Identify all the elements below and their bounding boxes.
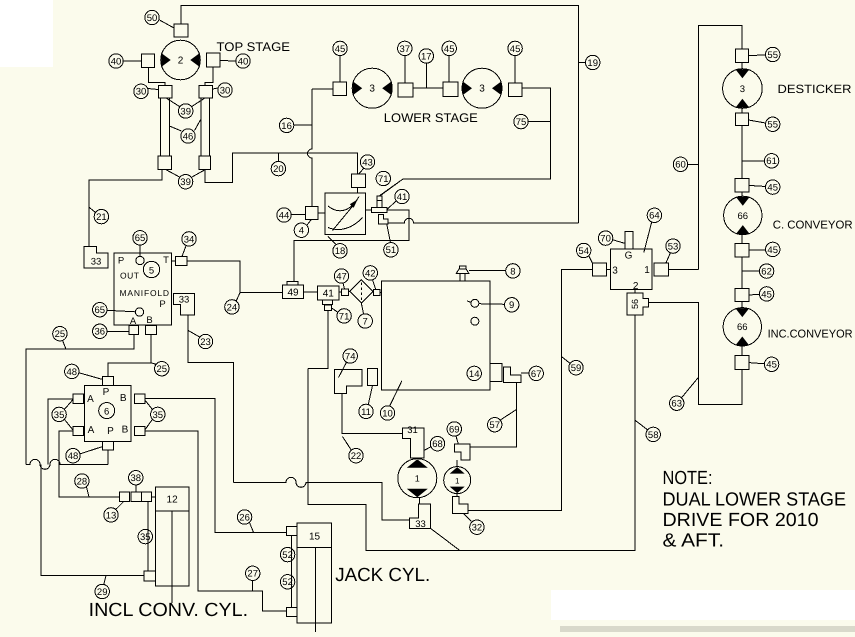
svg-text:39: 39	[180, 177, 191, 188]
leader 18	[328, 237, 336, 245]
port square 45 c-conveyor top	[735, 179, 749, 193]
callout 45 lower-stage first	[333, 41, 347, 55]
port square 45-1	[333, 82, 347, 95]
leader 59	[561, 357, 570, 364]
svg-text:& AFT.: & AFT.	[663, 531, 725, 552]
svg-text:DUAL LOWER STAGE: DUAL LOWER STAGE	[663, 490, 847, 511]
svg-text:3: 3	[479, 84, 485, 95]
manifold label B	[146, 315, 152, 326]
svg-text:49: 49	[287, 288, 299, 299]
wire c-conv to inc-conv	[741, 257, 743, 288]
wire valve6 bottom port to hose	[107, 450, 109, 464]
port square left-bottom valve 6	[73, 426, 84, 435]
svg-text:20: 20	[273, 164, 284, 175]
wire to inc-conveyor	[741, 302, 743, 308]
valve3 label 1	[644, 265, 650, 276]
tube square upper-right	[199, 85, 213, 97]
wire pump2 to bottom fitting	[456, 494, 458, 497]
svg-text:34: 34	[184, 234, 195, 245]
callout 17	[419, 49, 433, 63]
svg-text:LOWER STAGE: LOWER STAGE	[384, 111, 478, 125]
flag 33 right of manifold	[173, 293, 194, 315]
svg-text:55: 55	[767, 120, 778, 131]
callout 25 right	[155, 362, 169, 376]
wire 49 to 41	[304, 291, 318, 293]
check valve filter diamond	[350, 280, 373, 303]
fitting square below 41	[325, 305, 332, 311]
cylinder 15 body	[297, 523, 331, 632]
svg-text:51: 51	[386, 245, 397, 256]
svg-text:52: 52	[282, 577, 293, 588]
reservoir tank box	[382, 281, 491, 390]
svg-text:INCL CONV. CYL.: INCL CONV. CYL.	[89, 600, 249, 621]
hose coil center	[234, 477, 410, 520]
manifold box	[114, 253, 171, 325]
stem 45-2	[448, 56, 450, 83]
cylinder 12 port square	[144, 571, 155, 581]
label JACK CYL.	[335, 565, 430, 586]
svg-text:A: A	[88, 425, 95, 436]
fitting L	[379, 215, 389, 224]
valve3 label 2	[633, 281, 639, 292]
svg-text:B: B	[120, 393, 127, 404]
callout 40 right	[236, 54, 250, 68]
wire desticker to square	[741, 108, 743, 113]
wire 40 right	[220, 60, 236, 63]
callout 45 c-conv bottom	[766, 242, 780, 256]
callout 35 on line	[138, 529, 152, 543]
component 56	[627, 293, 648, 315]
callout 16	[279, 118, 293, 132]
svg-text:63: 63	[671, 399, 682, 410]
callout 39 lower	[178, 175, 192, 189]
svg-text:75: 75	[516, 117, 527, 128]
valve 6 label P bottom	[107, 426, 114, 437]
tank right port rectangle	[490, 364, 502, 382]
leader callout 50	[160, 20, 175, 28]
callout 64	[647, 208, 661, 222]
svg-text:70: 70	[600, 234, 611, 245]
svg-text:3: 3	[740, 84, 745, 95]
motor U3 lower stage left	[352, 68, 392, 108]
tube square upper-left	[158, 85, 172, 97]
leader 43	[359, 168, 364, 174]
svg-text:61: 61	[766, 156, 777, 167]
svg-text:43: 43	[362, 157, 373, 168]
leader lines to 39 upper	[166, 98, 205, 107]
wire desticker feed	[698, 26, 742, 270]
svg-text:4: 4	[299, 226, 304, 237]
leader 11	[368, 386, 372, 405]
wire tank L down to 69 fitting	[470, 383, 517, 447]
svg-text:28: 28	[77, 476, 88, 487]
leader 58	[635, 420, 648, 430]
leader 70	[613, 240, 625, 244]
svg-text:T: T	[163, 255, 169, 266]
svg-text:25: 25	[157, 364, 168, 375]
valve 6 label B top	[120, 393, 127, 404]
svg-text:44: 44	[279, 210, 290, 221]
svg-text:C. CONVEYOR: C. CONVEYOR	[773, 220, 853, 232]
manifold label MANIFOLD	[120, 288, 170, 298]
svg-text:33: 33	[179, 295, 190, 306]
callout 54	[577, 243, 591, 257]
fitting square 47	[342, 289, 349, 295]
label INC.CONVEYOR	[768, 329, 853, 341]
manifold port square B	[146, 326, 157, 335]
wire 45 inc-conv bottom	[749, 363, 765, 364]
callout 60	[673, 157, 687, 171]
port square 37	[398, 83, 413, 97]
wire 45-3 square right and down	[380, 88, 551, 195]
svg-text:45: 45	[766, 360, 777, 371]
svg-text:P: P	[103, 387, 110, 398]
svg-text:69: 69	[449, 424, 460, 435]
valve block 41	[318, 286, 339, 305]
callout 26	[237, 510, 251, 524]
callout 70	[598, 231, 612, 245]
callout 48 top	[65, 364, 79, 378]
svg-text:35: 35	[54, 410, 65, 421]
callout 45 c-conv top	[766, 180, 780, 194]
leader 41 fitting	[387, 201, 396, 210]
leader 48 top	[79, 373, 103, 380]
port square right-bottom valve 6	[134, 426, 145, 435]
valve3 block box	[610, 249, 652, 290]
white panel top-left	[0, 0, 53, 67]
callout 19	[586, 55, 600, 69]
callout 55 bottom	[766, 117, 780, 131]
callout 20	[271, 161, 285, 175]
wire valve3 right port to riser	[668, 269, 698, 271]
svg-text:46: 46	[183, 131, 194, 142]
svg-text:MANIFOLD: MANIFOLD	[120, 288, 170, 298]
pump P2	[444, 467, 471, 494]
svg-text:57: 57	[489, 420, 500, 431]
svg-text:65: 65	[95, 305, 106, 316]
svg-text:68: 68	[432, 439, 443, 450]
callout 38	[129, 471, 143, 485]
port square right-top valve 6	[134, 394, 145, 403]
valve 6 label A bottom	[88, 425, 95, 436]
svg-text:45: 45	[767, 183, 778, 194]
valve V18 box	[325, 193, 365, 235]
wire 36 to A port	[107, 330, 129, 332]
stem 27	[252, 581, 254, 592]
callout 55 top	[766, 47, 780, 61]
stem 45-3	[514, 56, 516, 83]
svg-text:58: 58	[648, 430, 659, 441]
leader 21	[89, 207, 96, 213]
svg-text:NOTE:: NOTE:	[663, 468, 713, 489]
leader 69	[456, 436, 458, 444]
port square right of motor 2	[207, 53, 221, 67]
leader 29	[104, 576, 106, 585]
tank breather	[456, 266, 469, 281]
svg-text:12: 12	[167, 495, 179, 506]
callout 45 lower-stage second	[442, 41, 456, 55]
svg-text:17: 17	[421, 51, 432, 62]
leader 10 into tank	[390, 381, 402, 406]
callout 62	[759, 264, 773, 278]
svg-text:25: 25	[55, 329, 66, 340]
svg-text:60: 60	[675, 160, 686, 171]
svg-text:1: 1	[455, 476, 460, 485]
callout 71 lower	[337, 309, 351, 323]
svg-text:66: 66	[737, 322, 748, 333]
wire 51 horizontal with hop	[388, 218, 578, 223]
callout 11	[359, 404, 373, 418]
leader 42	[373, 280, 376, 290]
wire to c-conveyor	[741, 192, 743, 196]
svg-text:DRIVE FOR 2010: DRIVE FOR 2010	[663, 510, 819, 531]
wire 47 to diamond	[348, 290, 349, 293]
callout 30 right	[218, 83, 232, 97]
leaders 35 left	[65, 400, 74, 431]
wire top loop from square 50 to right side drop	[181, 6, 578, 223]
callout 22	[349, 449, 363, 463]
fitting T stem	[377, 200, 382, 207]
callout 8	[506, 264, 520, 278]
callout 29	[95, 584, 109, 598]
callout 41 fitting	[395, 189, 409, 203]
wire 56 tab to conveyor return	[648, 303, 742, 405]
port square top of valve 6	[103, 377, 114, 386]
port square right of valve3	[654, 263, 668, 276]
callout 48 bottom	[66, 449, 80, 463]
motor U2 TOP STAGE	[161, 40, 201, 80]
callout 51	[384, 243, 398, 257]
wire triple squares to cylinder 12	[152, 496, 156, 498]
wire 45-1 square to vertical	[312, 88, 333, 90]
svg-text:71: 71	[339, 311, 350, 322]
callout 65 top	[133, 231, 147, 245]
callout 59	[569, 361, 583, 375]
svg-text:40: 40	[111, 56, 122, 67]
callout 21	[94, 209, 108, 223]
callout 13	[104, 508, 118, 522]
fitting L above pump 2	[454, 444, 470, 460]
leader 65 left	[107, 310, 135, 312]
wire diamond to 7	[361, 303, 363, 314]
wire port to valve body	[318, 212, 325, 214]
svg-text:OUT: OUT	[120, 271, 139, 281]
svg-text:2: 2	[633, 281, 639, 292]
svg-text:45: 45	[761, 289, 772, 300]
port square 45 inc-conveyor bottom	[735, 356, 749, 370]
valve3 label 3	[612, 266, 618, 277]
wire 67	[521, 372, 529, 374]
callout 45 lower-stage third	[508, 41, 522, 55]
leader 64	[644, 222, 652, 253]
wire 41 to 47 square	[339, 291, 342, 293]
leader 23	[188, 331, 200, 338]
wire 62 tick	[742, 270, 759, 272]
node square 34	[176, 257, 188, 266]
svg-text:1: 1	[644, 265, 650, 276]
svg-text:45: 45	[510, 44, 521, 55]
wire 74 block to flag 31	[342, 394, 403, 434]
svg-text:21: 21	[96, 212, 107, 223]
port square desticker bottom	[736, 113, 749, 126]
svg-text:10: 10	[382, 408, 393, 419]
fitting L below pump 2	[452, 497, 468, 514]
port square 45 inc-conveyor top	[735, 288, 749, 301]
tube square lower-left	[158, 156, 172, 170]
svg-text:54: 54	[578, 246, 589, 257]
callout 68	[430, 437, 444, 451]
leader 25 right	[151, 363, 156, 365]
wire port B down to valve 6	[108, 335, 151, 377]
wire manifold T to 34 square	[171, 260, 175, 262]
port square 45-3	[508, 83, 521, 96]
svg-text:G: G	[625, 251, 633, 262]
valve block 49	[282, 281, 303, 298]
svg-text:35: 35	[140, 532, 151, 543]
manifold label OUT	[120, 271, 139, 281]
label TOP STAGE	[217, 40, 291, 54]
fitting square 71	[377, 196, 382, 200]
wire 8 to breather	[469, 269, 506, 271]
manifold label A	[130, 316, 137, 327]
svg-text:37: 37	[400, 44, 411, 55]
svg-text:P: P	[118, 256, 124, 267]
svg-text:36: 36	[95, 327, 106, 338]
wire 40 left	[124, 60, 142, 62]
manifold label P top	[118, 256, 124, 267]
callout 69	[447, 422, 461, 436]
callout 75	[514, 114, 528, 128]
port square 45-2	[443, 82, 458, 96]
wire valve3 to 56	[634, 289, 636, 293]
tube square lower-right	[199, 156, 211, 170]
callout 36	[93, 324, 107, 338]
callout 37	[398, 41, 412, 55]
callout 30 left	[134, 84, 148, 98]
wire between 37 and 45-2 squares	[413, 87, 443, 89]
svg-text:64: 64	[649, 211, 660, 222]
leader 4	[307, 219, 312, 225]
svg-text:P: P	[159, 299, 165, 310]
port square desticker top	[736, 49, 749, 62]
svg-text:27: 27	[247, 569, 258, 580]
stem 65 top	[139, 245, 141, 256]
flag 31	[403, 425, 424, 458]
callout 74	[343, 349, 357, 363]
svg-text:39: 39	[180, 106, 191, 117]
valve 6 label A top	[87, 394, 94, 405]
port square left of valve3	[592, 263, 606, 276]
callout 35 valve6 right	[151, 407, 165, 421]
wire lower-stage left port to valve box (vertical with hop)	[308, 89, 313, 207]
svg-text:3: 3	[369, 84, 375, 95]
svg-text:7: 7	[363, 316, 368, 327]
motor C CONVEYOR	[724, 196, 762, 234]
leader 20	[277, 153, 279, 161]
callout 35 valve6 left	[52, 407, 66, 421]
valve3 G port rect	[625, 232, 633, 249]
callout 63 left	[670, 396, 684, 410]
fitting T bar	[372, 208, 387, 213]
leader 30 right	[213, 88, 219, 89]
svg-text:40: 40	[238, 56, 249, 67]
wire pump1 to fitting 33	[419, 498, 421, 504]
hose coil lower-left	[26, 459, 108, 469]
svg-text:38: 38	[131, 473, 142, 484]
svg-text:47: 47	[336, 271, 347, 282]
callout 32	[470, 520, 484, 534]
callout 39 upper	[179, 104, 193, 118]
svg-text:8: 8	[510, 266, 515, 277]
svg-text:23: 23	[200, 337, 211, 348]
pump P1	[398, 459, 437, 498]
leader 51	[387, 224, 391, 243]
wire 9	[479, 303, 505, 306]
valve 6 circle	[99, 403, 115, 419]
svg-text:50: 50	[147, 13, 158, 24]
callout 24	[225, 300, 239, 314]
leader 74	[339, 362, 347, 377]
triple fitting squares	[120, 492, 152, 501]
label LOWER STAGE	[384, 111, 478, 125]
wire motor2 left port down to tube	[148, 68, 165, 86]
wire 75	[528, 121, 550, 123]
svg-text:66: 66	[738, 211, 749, 222]
wire T-fitting to valve right	[365, 209, 371, 211]
node square 50	[174, 24, 188, 37]
svg-text:22: 22	[351, 451, 362, 462]
valve 6 label P top	[103, 387, 110, 398]
wire c-conveyor to square	[741, 234, 743, 243]
svg-text:18: 18	[335, 246, 346, 257]
wire return riser to bottom run	[308, 315, 635, 551]
callout 42	[363, 266, 377, 280]
component 74 block	[334, 369, 362, 393]
wire square to desticker	[741, 62, 743, 68]
leader 26	[250, 523, 254, 533]
leader 22	[342, 437, 351, 451]
svg-text:45: 45	[767, 245, 778, 256]
callout 18	[333, 244, 347, 258]
motor U3 lower stage right	[462, 68, 502, 108]
svg-text:6: 6	[104, 406, 109, 417]
svg-text:13: 13	[106, 510, 117, 521]
wire valve6 LB port to triple squares	[59, 431, 120, 497]
wire valve6 RT port to jack cyl top	[145, 399, 286, 533]
callout 57	[488, 418, 502, 432]
wire valve6 RB port to jack cyl bottom	[145, 431, 286, 611]
svg-text:65: 65	[135, 233, 146, 244]
cylinder tube right walls	[201, 98, 210, 156]
port square left of motor 2	[142, 54, 155, 68]
callout 45 inc-conv bottom	[764, 357, 778, 371]
leader 53	[666, 253, 670, 263]
svg-text:48: 48	[67, 367, 78, 378]
callout 25 left	[53, 327, 67, 341]
svg-text:B: B	[122, 425, 129, 436]
svg-text:59: 59	[571, 363, 582, 374]
leader 13	[116, 501, 124, 509]
svg-text:P: P	[107, 426, 114, 437]
callout 44	[277, 208, 291, 222]
wire 43 square to valve box	[357, 188, 359, 194]
fitting L at tank right	[504, 367, 521, 383]
cylinder 12 body	[155, 487, 188, 603]
svg-text:11: 11	[361, 407, 371, 418]
wire right tube square to valve and 43	[205, 153, 358, 182]
leader 57	[500, 410, 516, 421]
valve V18 internal curves	[328, 197, 363, 231]
